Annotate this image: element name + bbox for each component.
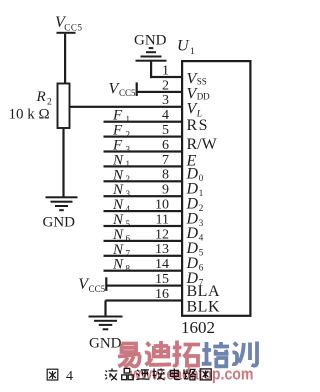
watermark logo DI (red, approximated glyph) [145,341,171,365]
watermark logo PEI (blue, approximated glyph) [202,342,229,366]
wire pin 11 [104,225,183,227]
svg-text:4: 4 [162,108,169,123]
resistor R2 10k [58,84,70,129]
pin label D1 [186,181,204,199]
svg-text:6: 6 [126,234,131,244]
ground (below R2) [43,196,78,230]
svg-text:3: 3 [126,144,131,154]
ground (bottom, pin 16 BLK) [89,316,123,352]
node N3 (pin 9) [112,182,131,199]
svg-text:CC5: CC5 [119,88,136,98]
svg-text:2: 2 [126,174,131,184]
wire pin 13 [104,255,183,257]
svg-text:N: N [112,227,124,243]
pin label VL [187,101,202,120]
svg-text:8: 8 [162,168,169,183]
svg-text:14: 14 [155,257,169,272]
svg-text:N: N [112,257,124,273]
svg-text:4: 4 [66,369,73,384]
svg-text:N: N [112,242,124,258]
svg-text:7: 7 [162,153,169,168]
svg-text:5: 5 [162,123,169,138]
svg-text:5: 5 [199,248,204,258]
svg-text:GND: GND [43,215,76,231]
svg-text:15: 15 [155,272,169,287]
svg-text:CC5: CC5 [89,284,106,294]
wire pin 9 [104,195,183,197]
caption text (approximated CJK glyphs) [105,368,211,380]
svg-text:BLA: BLA [187,283,221,300]
caption: figure label 图 4 [47,369,58,380]
svg-text:N: N [112,167,124,183]
svg-text:1: 1 [190,47,195,57]
svg-text:F: F [112,138,123,154]
svg-text:6: 6 [199,263,204,273]
svg-text:5: 5 [126,219,131,229]
wire pin 1 [150,76,183,78]
svg-text:16: 16 [155,287,169,302]
node F3 (pin 6) [112,138,131,155]
svg-text:U: U [177,38,190,55]
svg-text:F: F [112,123,123,139]
node N8 (pin 14) [112,257,131,274]
pin label VSS [187,71,207,88]
svg-text:1602: 1602 [181,318,215,337]
svg-text:0: 0 [199,173,204,183]
svg-text:4: 4 [126,204,131,214]
svg-text:13: 13 [155,242,169,257]
svg-text:3: 3 [162,93,169,108]
wire resistor R2 to ground [62,128,64,197]
pin label D4 [186,225,204,243]
power VCC5 (pin 2 VDD) [109,81,138,98]
pin label D6 [186,255,204,273]
node N7 (pin 13) [112,242,131,259]
pin label D7 [186,270,204,288]
svg-text:N: N [112,152,124,168]
svg-text:11: 11 [156,212,169,227]
wire pin 12 [104,240,183,242]
wire pin 7 [104,165,183,167]
wire pin 15 [106,285,182,287]
watermark logo XUN (blue, approximated glyph) [232,342,257,366]
svg-text:2: 2 [199,203,204,213]
svg-text:R: R [36,89,46,105]
svg-text:7: 7 [126,249,131,259]
svg-text:N: N [112,197,124,213]
node F2 (pin 5) [112,123,130,140]
svg-text:1: 1 [126,115,131,125]
svg-text:3: 3 [126,189,131,199]
svg-text:9: 9 [162,183,169,198]
node N1 (pin 7) [112,152,130,169]
svg-text:GND: GND [134,33,167,49]
pin label D2 [186,195,204,213]
svg-text:BLK: BLK [187,299,221,316]
pin label VDD [187,86,211,103]
wire pin 10 [104,210,183,212]
svg-text:2: 2 [162,78,169,93]
power VCC5 (pin 15 BLA) [78,276,107,294]
svg-text:N: N [112,182,124,198]
svg-text:10: 10 [155,198,169,213]
pin label D5 [186,240,204,258]
node N4 (pin 10) [112,197,131,214]
node F1 (pin 4) [112,108,130,125]
ground (top, pin 1 VSS) [134,33,167,79]
wire pin 14 [104,270,183,272]
wire pin 8 [104,180,183,182]
svg-text:1: 1 [162,63,169,78]
svg-text:GND: GND [89,336,122,352]
node N2 (pin 8) [112,167,130,184]
power VCC5 (top-left) [55,14,83,34]
svg-text:6: 6 [162,138,169,153]
svg-text:N: N [112,212,124,228]
pin label D0 [186,166,204,184]
svg-text:R/W: R/W [187,136,218,153]
svg-text:10 k Ω: 10 k Ω [9,107,50,123]
svg-text:RS: RS [187,117,210,134]
svg-text:12: 12 [155,227,169,242]
node N5 (pin 11) [112,212,131,229]
IC U1 box (LCD 1602) [182,61,250,316]
pin label D3 [186,210,204,228]
svg-text:F: F [112,108,123,124]
wire VCC5 to resistor R2 [64,34,66,84]
watermark logo TUO (red, approximated glyph) [173,341,201,366]
wire pin 16 down to ground [104,300,106,315]
svg-text:SS: SS [197,77,207,87]
svg-text:2: 2 [126,129,131,139]
wire pin 3 [70,106,183,108]
wire pin 16 [106,299,183,301]
label U1 [177,38,195,58]
svg-text:4: 4 [199,233,204,243]
svg-text:CC5: CC5 [64,22,82,32]
node N6 (pin 12) [112,227,131,244]
wire pin 6 [104,150,183,152]
svg-text:3: 3 [199,218,204,228]
wire pin 5 [104,136,183,138]
svg-text:8: 8 [126,264,131,274]
label R2 [36,89,53,108]
watermark logo YI (red, approximated glyph) [118,344,141,368]
wire pin 4 [104,121,183,123]
svg-text:DD: DD [197,92,210,102]
svg-text:1: 1 [126,159,131,169]
wire pin 2 [137,91,183,93]
svg-text:1: 1 [199,188,204,198]
